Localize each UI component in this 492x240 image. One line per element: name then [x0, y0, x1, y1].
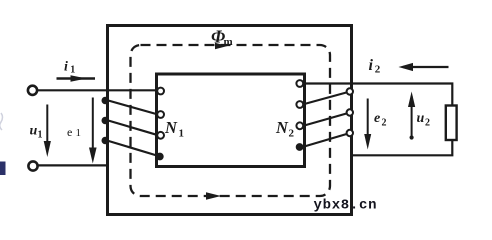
load resistor	[446, 106, 457, 141]
svg-text:2: 2	[382, 118, 387, 129]
svg-text:1: 1	[38, 130, 43, 141]
svg-text:e: e	[67, 125, 72, 139]
svg-text:1: 1	[179, 128, 185, 140]
winding N1 loops on inner window edge	[157, 88, 164, 95]
svg-text:i: i	[64, 60, 68, 75]
svg-text:N: N	[164, 118, 178, 137]
svg-text:N: N	[275, 118, 289, 137]
wire: top-right from winding to load	[303, 84, 452, 106]
wire: top-left from terminal to winding N1	[38, 89, 158, 91]
winding N2 loops on inner window edge	[296, 80, 303, 87]
svg-text:2: 2	[289, 128, 295, 140]
svg-text:u: u	[30, 124, 38, 139]
emf arrow e1	[92, 98, 94, 156]
svg-text:1: 1	[76, 127, 82, 139]
core outer rectangle	[108, 26, 352, 215]
flux arrow bottom	[206, 192, 221, 200]
winding N1 diagonal turns	[107, 100, 159, 115]
wire: bottom-right from load to winding	[352, 140, 452, 155]
wire: bottom-left from terminal to core leg	[38, 164, 109, 166]
flux path dashed loop	[131, 45, 331, 196]
winding N1 bumps on outer leg edge	[102, 98, 108, 104]
current arrow i2	[403, 66, 449, 68]
svg-text:2: 2	[425, 118, 430, 129]
svg-text:i: i	[369, 57, 374, 74]
voltage arrow u2	[411, 96, 413, 140]
svg-text:2: 2	[375, 64, 381, 76]
node: terminal 1 (top left)	[28, 86, 37, 95]
current arrow i1	[57, 77, 96, 79]
flux arrow top	[215, 43, 228, 50]
emf arrow e2	[367, 99, 369, 145]
svg-text:m: m	[224, 36, 233, 48]
svg-text:1: 1	[70, 65, 75, 76]
svg-text:u: u	[417, 111, 425, 126]
svg-text:e: e	[374, 111, 380, 126]
voltage arrow u1	[46, 105, 48, 151]
svg-text:ybx8.cn: ybx8.cn	[314, 198, 378, 214]
node: terminal 2 (bottom left)	[28, 161, 37, 170]
winding N2 bumps on outer leg edge	[347, 88, 353, 94]
core inner window rectangle	[157, 74, 305, 167]
winding N2 diagonal turns	[303, 92, 351, 105]
left-edge cropped blue marks	[0, 113, 5, 175]
